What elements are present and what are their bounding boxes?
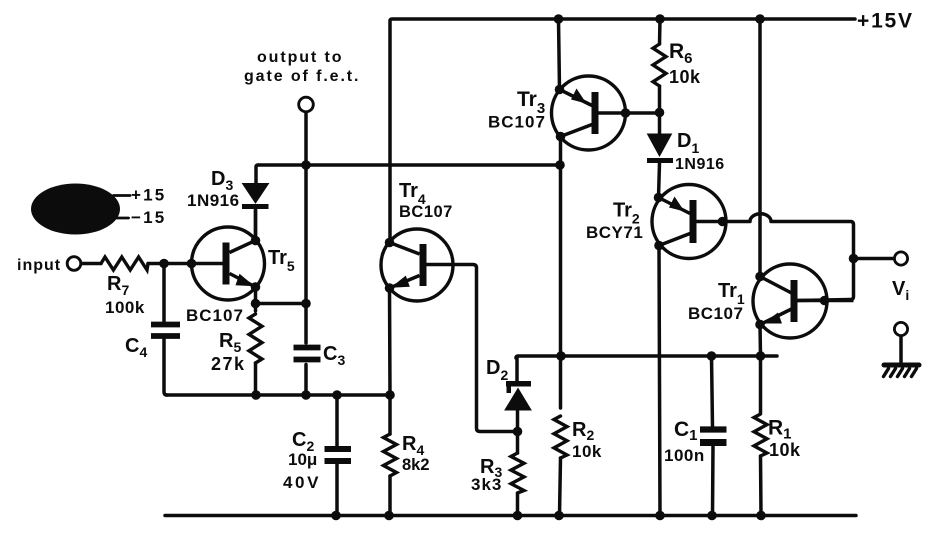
svg-text:1N916: 1N916 [187, 191, 240, 210]
svg-text:27k: 27k [211, 354, 246, 374]
svg-text:R4: R4 [402, 433, 424, 458]
svg-text:Vi: Vi [892, 278, 909, 303]
svg-text:8k2: 8k2 [402, 456, 430, 474]
svg-text:100n: 100n [664, 446, 705, 465]
svg-text:10k: 10k [669, 67, 701, 87]
svg-text:+15V: +15V [857, 10, 914, 33]
svg-text:Tr1: Tr1 [718, 280, 745, 307]
svg-text:R7: R7 [107, 273, 129, 298]
svg-text:BCY71: BCY71 [586, 223, 643, 242]
svg-text:R5: R5 [219, 330, 241, 355]
svg-text:10k: 10k [572, 442, 602, 461]
svg-text:BC107: BC107 [186, 306, 244, 325]
svg-text:R6: R6 [669, 40, 693, 67]
svg-text:10k: 10k [769, 440, 801, 460]
svg-text:R1: R1 [768, 417, 792, 443]
svg-text:input: input [17, 257, 61, 274]
svg-text:−15: −15 [131, 208, 166, 227]
svg-text:40V: 40V [283, 473, 321, 492]
svg-text:gate of f.e.t.: gate of f.e.t. [244, 68, 360, 85]
svg-text:100k: 100k [105, 298, 145, 317]
svg-text:R2: R2 [572, 419, 594, 443]
svg-text:C4: C4 [125, 335, 147, 360]
svg-text:D1: D1 [677, 130, 699, 156]
svg-text:D2: D2 [486, 357, 508, 383]
svg-text:BC107: BC107 [488, 113, 546, 132]
svg-text:10μ: 10μ [288, 450, 317, 469]
svg-text:C3: C3 [323, 343, 345, 368]
svg-text:output to: output to [257, 49, 343, 66]
svg-text:1N916: 1N916 [675, 156, 725, 173]
svg-text:3k3: 3k3 [471, 475, 502, 494]
svg-text:C1: C1 [674, 418, 698, 444]
svg-text:+15: +15 [131, 186, 166, 205]
svg-text:BC107: BC107 [688, 304, 743, 323]
svg-text:Tr5: Tr5 [268, 247, 295, 274]
svg-text:BC107: BC107 [399, 203, 453, 221]
svg-text:D3: D3 [211, 168, 233, 193]
